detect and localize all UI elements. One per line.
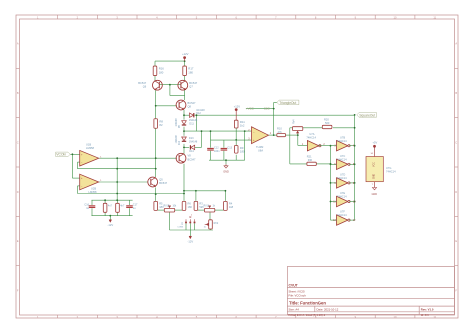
svg-text:VCC: VCC bbox=[374, 162, 376, 167]
svg-text:74HC14: 74HC14 bbox=[337, 176, 347, 180]
svg-text:74HC14: 74HC14 bbox=[386, 170, 396, 174]
svg-text:E: E bbox=[455, 239, 457, 243]
svg-text:U7C: U7C bbox=[340, 154, 345, 158]
svg-text:SquareOut: SquareOut bbox=[359, 114, 375, 118]
svg-text:C: C bbox=[455, 140, 457, 144]
svg-text:GND: GND bbox=[372, 193, 378, 196]
svg-text:V8: V8 bbox=[188, 154, 192, 158]
svg-text:U7D: U7D bbox=[340, 173, 345, 177]
svg-text:1N4148: 1N4148 bbox=[176, 135, 178, 144]
svg-text:LM358: LM358 bbox=[89, 190, 97, 194]
svg-text:U7F: U7F bbox=[340, 210, 345, 214]
svg-text:U8A: U8A bbox=[258, 148, 263, 152]
svg-text:BC547: BC547 bbox=[159, 181, 167, 185]
svg-text:CVUT: CVUT bbox=[289, 284, 299, 288]
svg-text:A: A bbox=[455, 42, 457, 46]
svg-text:-12V: -12V bbox=[107, 223, 113, 227]
svg-text:GND: GND bbox=[374, 174, 376, 179]
svg-text:180: 180 bbox=[240, 150, 245, 154]
svg-text:BC547: BC547 bbox=[138, 81, 146, 85]
svg-text:100n: 100n bbox=[214, 150, 220, 153]
svg-text:560: 560 bbox=[325, 121, 330, 125]
svg-text:180: 180 bbox=[159, 70, 164, 74]
svg-text:CON3: CON3 bbox=[177, 226, 184, 228]
svg-text:D14: D14 bbox=[189, 150, 194, 153]
svg-text:U7A: U7A bbox=[309, 132, 314, 136]
svg-text:4n7: 4n7 bbox=[120, 204, 125, 207]
svg-text:KiCad E.D.A. kicad (5.1.10)-1: KiCad E.D.A. kicad (5.1.10)-1 bbox=[289, 313, 326, 317]
svg-text:4n7: 4n7 bbox=[108, 204, 113, 207]
svg-text:1k8: 1k8 bbox=[229, 205, 234, 209]
svg-text:R5: R5 bbox=[159, 201, 163, 205]
svg-text:R20: R20 bbox=[324, 118, 329, 122]
svg-text:U2B: U2B bbox=[91, 187, 96, 191]
svg-text:74HC14: 74HC14 bbox=[337, 139, 347, 143]
svg-text:D11: D11 bbox=[189, 122, 194, 125]
svg-text:Title: FunctionGen: Title: FunctionGen bbox=[289, 301, 326, 306]
svg-text:Q6: Q6 bbox=[143, 85, 147, 89]
svg-text:VCOin: VCOin bbox=[56, 153, 66, 157]
svg-text:BC547: BC547 bbox=[188, 157, 196, 161]
svg-text:Q8: Q8 bbox=[188, 104, 192, 108]
svg-text:Q7: Q7 bbox=[189, 85, 193, 89]
svg-text:47k: 47k bbox=[278, 130, 283, 134]
svg-text:1N4148: 1N4148 bbox=[176, 118, 178, 127]
svg-text:R6: R6 bbox=[188, 201, 192, 205]
svg-text:GND: GND bbox=[223, 171, 229, 174]
svg-text:R21: R21 bbox=[307, 155, 312, 159]
svg-text:E: E bbox=[17, 239, 19, 243]
svg-text:Id: 4/4: Id: 4/4 bbox=[421, 313, 429, 317]
svg-text:+12V: +12V bbox=[234, 104, 241, 108]
svg-text:U7B: U7B bbox=[340, 135, 345, 139]
svg-text:-12V: -12V bbox=[187, 239, 193, 243]
svg-text:74HC14: 74HC14 bbox=[337, 213, 347, 217]
svg-text:D: D bbox=[455, 190, 457, 194]
svg-text:A: A bbox=[17, 42, 19, 46]
svg-text:74HC14: 74HC14 bbox=[337, 157, 347, 161]
svg-text:180: 180 bbox=[188, 70, 193, 74]
svg-text:File: VCO.sch: File: VCO.sch bbox=[289, 294, 307, 298]
svg-text:74HC14: 74HC14 bbox=[306, 136, 316, 140]
svg-text:Size: A4: Size: A4 bbox=[289, 307, 300, 311]
svg-text:B: B bbox=[17, 91, 19, 95]
svg-text:RV1A: RV1A bbox=[204, 204, 210, 207]
svg-text:U7E: U7E bbox=[340, 191, 345, 195]
svg-text:C13: C13 bbox=[227, 146, 232, 149]
svg-text:TriangleOut: TriangleOut bbox=[279, 101, 296, 105]
svg-text:180: 180 bbox=[188, 205, 193, 209]
svg-text:Q5: Q5 bbox=[159, 178, 163, 182]
svg-text:+5V: +5V bbox=[373, 141, 378, 145]
svg-text:74HC14: 74HC14 bbox=[337, 195, 347, 199]
svg-text:RV4: RV4 bbox=[293, 119, 296, 124]
svg-text:+12V: +12V bbox=[182, 52, 189, 56]
svg-text:Rev: V1.0: Rev: V1.0 bbox=[421, 307, 434, 311]
svg-text:BC547: BC547 bbox=[189, 81, 197, 85]
svg-text:C: C bbox=[17, 140, 19, 144]
svg-text:U1B: U1B bbox=[86, 142, 91, 146]
svg-text:LM358: LM358 bbox=[86, 146, 94, 150]
svg-text:D: D bbox=[17, 190, 19, 194]
svg-text:RV2: RV2 bbox=[214, 222, 219, 225]
svg-text:B: B bbox=[455, 91, 457, 95]
svg-text:RV1B: RV1B bbox=[164, 205, 170, 207]
svg-text:C0O: C0O bbox=[264, 107, 271, 111]
svg-text:1k2: 1k2 bbox=[240, 124, 245, 128]
svg-text:R4: R4 bbox=[229, 201, 233, 205]
svg-text:U7G: U7G bbox=[386, 166, 391, 170]
svg-text:D12: D12 bbox=[196, 112, 201, 115]
svg-text:BC547: BC547 bbox=[188, 101, 196, 105]
svg-text:390: 390 bbox=[308, 158, 313, 162]
svg-text:TL082: TL082 bbox=[256, 145, 264, 149]
svg-text:+VCC: +VCC bbox=[246, 107, 254, 111]
svg-text:D10: D10 bbox=[179, 140, 181, 145]
svg-text:1N4148: 1N4148 bbox=[189, 140, 198, 143]
svg-text:82: 82 bbox=[159, 123, 163, 127]
svg-text:Date: 2021-10-12: Date: 2021-10-12 bbox=[317, 307, 339, 311]
